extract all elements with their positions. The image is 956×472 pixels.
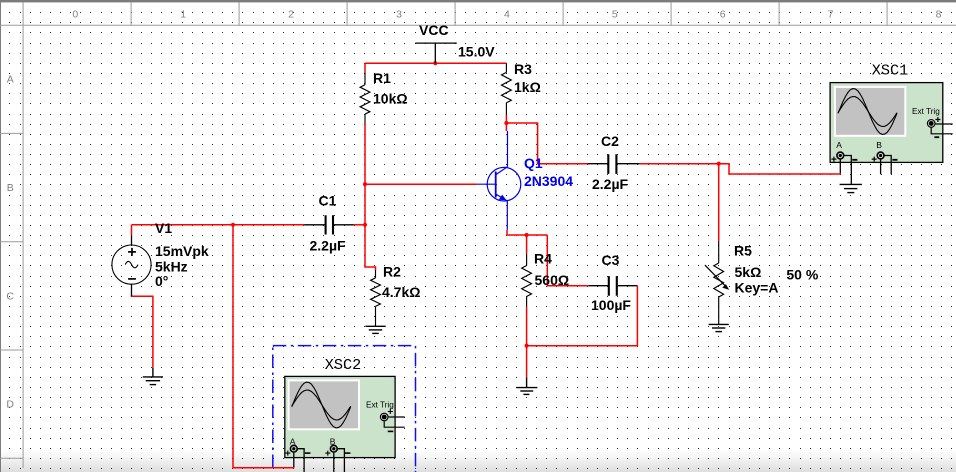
XSC1 screen wave channel B <box>838 97 897 127</box>
wire input net V1 to C1 <box>132 224 305 226</box>
wire collector pin red part <box>505 123 507 131</box>
top window edge bar <box>0 0 956 2</box>
svg-text:1: 1 <box>180 9 186 21</box>
svg-text:D: D <box>6 399 14 411</box>
svg-text:2N3904: 2N3904 <box>524 173 573 189</box>
resistor R1 <box>360 73 370 124</box>
potentiometer R5 wiper arrow <box>705 265 726 286</box>
svg-text:8: 8 <box>936 9 942 21</box>
Ext Trig connector XSC2 <box>380 413 388 421</box>
svg-text:R1: R1 <box>373 70 391 86</box>
svg-text:15mVpk: 15mVpk <box>155 243 209 259</box>
instrument labels <box>325 62 908 375</box>
svg-text:100µF: 100µF <box>591 297 631 313</box>
svg-text:6: 6 <box>720 9 726 21</box>
node input branch junction <box>231 223 235 227</box>
node base junction <box>363 182 367 186</box>
svg-text:7: 7 <box>828 9 834 21</box>
node VCC junction <box>433 61 437 65</box>
source V1 <box>131 235 133 296</box>
ruler letters <box>6 74 14 411</box>
svg-text:Q1: Q1 <box>524 155 543 171</box>
wire R1 top lead red <box>364 63 366 72</box>
svg-text:A: A <box>836 140 842 150</box>
wire R4 node to ground <box>526 346 528 378</box>
svg-text:VCC: VCC <box>419 22 449 38</box>
ground (V1) <box>143 368 163 385</box>
resistor R2 <box>371 270 381 326</box>
A pin to wire <box>839 159 841 174</box>
svg-text:R4: R4 <box>534 251 552 267</box>
A pin to wire XSC2 <box>293 453 295 468</box>
oscilloscope XSC1 <box>830 83 953 193</box>
XSC1 screen wave channel A <box>838 89 897 135</box>
svg-text:R2: R2 <box>383 263 401 279</box>
wire VCC rail <box>365 62 506 64</box>
node collector junction <box>504 121 508 125</box>
left window edge bar <box>0 0 1 472</box>
wire C2 right to XSC1 <box>639 163 718 165</box>
svg-text:0°: 0° <box>155 273 168 289</box>
svg-text:Key=A: Key=A <box>735 280 779 296</box>
resistor R3 <box>502 64 512 115</box>
XSC2 screen wave channel A <box>292 382 351 428</box>
svg-text:3: 3 <box>396 9 402 21</box>
transistor Q1 <box>477 131 521 230</box>
svg-text:5: 5 <box>612 9 618 21</box>
wire R4 top lead red <box>526 235 528 254</box>
resistor R4 <box>522 254 532 307</box>
A minus pin to ground <box>844 156 852 185</box>
node emitter bottom junction <box>525 344 529 348</box>
wire V1 top <box>131 225 133 236</box>
wire C1 right to base column <box>354 224 365 226</box>
capacitor C1 <box>304 224 354 226</box>
svg-text:XSC1: XSC1 <box>872 62 908 80</box>
svg-text:B: B <box>876 140 882 150</box>
XSC2 screen wave channel B <box>292 390 351 420</box>
node emitter junction <box>525 233 529 237</box>
wire V1 bottom to ground <box>132 295 153 368</box>
svg-text:C3: C3 <box>602 252 620 268</box>
svg-text:4.7kΩ: 4.7kΩ <box>382 284 420 300</box>
potentiometer R5 <box>714 241 724 325</box>
svg-text:2: 2 <box>288 9 294 21</box>
svg-text:C: C <box>6 291 14 303</box>
wire R4 bottom lead red <box>526 307 528 346</box>
B pin stubs XSC1 <box>880 159 882 174</box>
wire R1 bottom to R2 <box>365 124 376 271</box>
svg-text:2.2µF: 2.2µF <box>592 176 629 192</box>
capacitor C3 <box>589 285 638 287</box>
label Q1 <box>524 155 573 189</box>
svg-text:10kΩ: 10kΩ <box>373 91 408 107</box>
svg-text:5kHz: 5kHz <box>155 259 188 275</box>
power VCC symbol <box>415 43 457 63</box>
wire R5 branch <box>718 164 720 241</box>
svg-text:V1: V1 <box>155 220 172 236</box>
wire emitter net <box>507 230 547 235</box>
wire emitter down to C3 <box>547 235 588 286</box>
svg-text:R5: R5 <box>734 242 752 258</box>
oscilloscope XSC2 <box>285 376 405 472</box>
wire R3 bottom to collector node <box>506 115 587 164</box>
svg-text:A: A <box>7 74 14 86</box>
svg-text:1kΩ: 1kΩ <box>514 79 541 95</box>
svg-text:2.2µF: 2.2µF <box>310 237 347 253</box>
svg-text:R3: R3 <box>514 61 532 77</box>
svg-text:C1: C1 <box>319 192 337 208</box>
node C1 junction <box>363 223 367 227</box>
svg-text:5kΩ: 5kΩ <box>735 264 762 280</box>
svg-text:50 %: 50 % <box>786 266 818 282</box>
node output junction <box>717 162 721 166</box>
ground (R4) <box>516 378 537 395</box>
ground (scope XSC1) <box>840 184 862 192</box>
selection box around XSC2 <box>273 346 416 472</box>
svg-text:Ext Trig: Ext Trig <box>366 401 394 410</box>
svg-text:XSC2: XSC2 <box>325 356 361 374</box>
svg-text:560Ω: 560Ω <box>535 272 570 288</box>
ground (R5) <box>709 324 729 331</box>
B pin stubs XSC2 <box>333 453 335 472</box>
svg-text:B: B <box>7 182 14 194</box>
Ext Trig connector XSC1 <box>927 120 935 128</box>
svg-text:15.0V: 15.0V <box>458 44 495 60</box>
wire base net <box>365 183 477 185</box>
svg-text:C2: C2 <box>601 133 619 149</box>
svg-text:Ext Trig: Ext Trig <box>912 107 940 116</box>
ground (R2) <box>365 326 385 333</box>
ruler numerals <box>72 9 941 21</box>
svg-text:4: 4 <box>504 9 510 21</box>
wire C3 right loop down <box>527 286 638 346</box>
svg-text:0: 0 <box>72 9 78 21</box>
capacitor C2 <box>588 163 640 165</box>
wire branch to XSC2 channel A <box>233 225 294 468</box>
